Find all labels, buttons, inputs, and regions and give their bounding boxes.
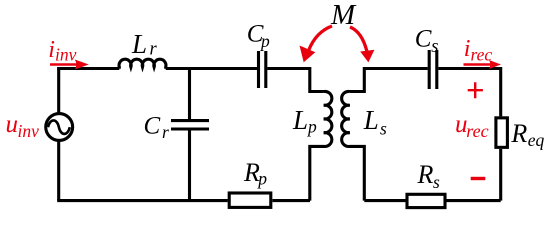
resistor R_eq body (496, 118, 508, 148)
label u_inv (red) (6, 111, 40, 141)
svg-text:s: s (431, 37, 438, 57)
wire R_p to L_p stem (273, 199, 311, 202)
label i_rec (red) (464, 36, 493, 65)
svg-text:C: C (144, 112, 161, 139)
label L_r (131, 29, 158, 60)
wire right vertical above R_eq (499, 67, 502, 116)
svg-text:L: L (131, 29, 147, 59)
current arrow i_rec (464, 60, 502, 69)
svg-text:rec: rec (471, 45, 493, 65)
label L_s (363, 105, 387, 138)
svg-text:p: p (256, 169, 267, 189)
polarity minus sign (471, 177, 486, 180)
wire C_r branch upper (188, 69, 191, 121)
svg-text:R: R (417, 160, 434, 189)
wire top-right horizontal to C_s (364, 67, 427, 70)
svg-text:inv: inv (18, 121, 40, 141)
svg-text:rec: rec (466, 121, 488, 141)
wire right vertical below R_eq (499, 149, 502, 201)
resistor R_s body (407, 194, 445, 207)
wire top-left horizontal (57, 67, 119, 70)
polarity plus sign (468, 82, 483, 98)
svg-text:L: L (292, 105, 308, 135)
svg-text:p: p (306, 117, 317, 137)
wire from C_p to L_p corner (267, 67, 310, 70)
svg-text:r: r (150, 40, 158, 60)
svg-text:i: i (48, 37, 55, 63)
inductor L_p (primary coil) (310, 67, 332, 201)
capacitor C_s plates (429, 50, 437, 89)
svg-text:M: M (330, 0, 357, 31)
current arrow i_inv (50, 60, 89, 70)
wire left vertical above source (57, 67, 60, 114)
wire C_s to right corner (438, 67, 500, 70)
wire bottom-left horizontal (57, 199, 228, 202)
inductor L_r (119, 59, 166, 68)
wire top mid horizontal to C_p (166, 67, 257, 70)
svg-text:C: C (415, 26, 432, 53)
mutual coupling arrow right (M) (350, 27, 374, 62)
svg-text:r: r (162, 122, 169, 142)
resistor R_p body (229, 193, 271, 207)
source u_inv sine wave (48, 120, 70, 134)
capacitor C_p plates (259, 51, 266, 88)
label C_s (415, 26, 439, 58)
svg-text:R: R (510, 119, 527, 148)
label R_p (243, 158, 267, 189)
svg-text:s: s (433, 172, 440, 192)
label i_inv (red) (48, 37, 76, 65)
mutual coupling arrow left (M) (300, 26, 333, 62)
label R_s (417, 160, 441, 192)
svg-text:L: L (363, 105, 379, 135)
svg-text:p: p (259, 31, 270, 51)
label C_r (144, 112, 170, 142)
label C_p (247, 21, 270, 51)
wire bottom-right horizontal (364, 199, 500, 202)
svg-text:inv: inv (55, 45, 77, 65)
svg-text:eq: eq (528, 130, 545, 150)
svg-text:i: i (464, 36, 471, 62)
svg-text:s: s (380, 118, 387, 138)
svg-text:u: u (6, 111, 19, 138)
inductor L_s (secondary coil) (342, 67, 365, 201)
label R_eq (510, 119, 544, 150)
wire C_r branch lower (188, 131, 191, 201)
wire left vertical below source (57, 141, 60, 201)
source u_inv circle (46, 114, 73, 141)
label u_rec (red) (455, 111, 489, 141)
capacitor C_r plates (171, 121, 209, 129)
label L_p (292, 105, 317, 137)
